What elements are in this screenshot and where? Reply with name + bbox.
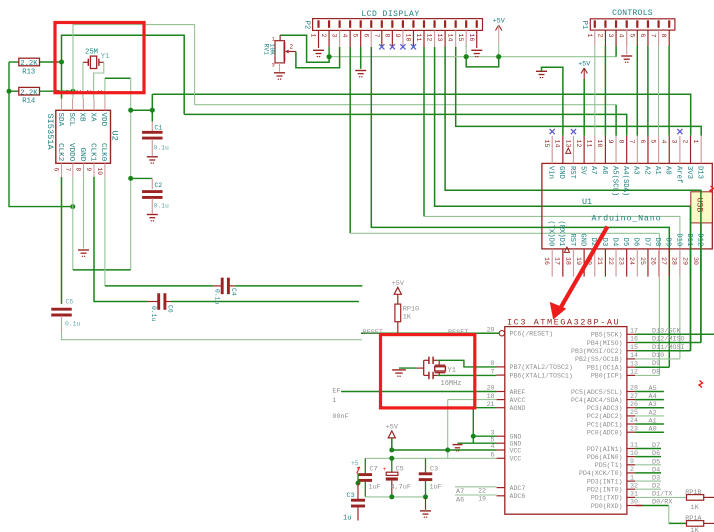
header P2 pin line 13 <box>444 30 446 47</box>
svg-text:PC1(ADC1): PC1(ADC1) <box>587 421 623 428</box>
no-connect X LCD pins 7-10 <box>379 44 384 49</box>
svg-text:C7: C7 <box>370 466 378 474</box>
svg-text:5V: 5V <box>579 166 587 175</box>
IC3 right pin 32 PD2(INT0) <box>627 488 635 490</box>
wire LCD pin15 to +5V <box>465 44 467 57</box>
U1 bottom pin 19 GND <box>583 249 585 277</box>
IC3 left pin 21 AGND <box>497 407 505 409</box>
wire SDA rail <box>184 114 627 135</box>
IC3 right pin 14 PB2(SS/OC1B) <box>627 358 635 360</box>
svg-text:XA: XA <box>88 113 96 123</box>
svg-text:D11: D11 <box>685 233 693 246</box>
trimmer RV1 10K <box>279 35 281 41</box>
header P2 pin tick 3 <box>339 20 341 28</box>
IC3 right pin 11 PD7(AIN1) <box>627 448 635 450</box>
header P2 pin line 1 <box>318 30 320 48</box>
IC3 right pin 25 PC2(ADC2) <box>627 415 635 417</box>
svg-text:PD6(AIN0): PD6(AIN0) <box>587 454 623 461</box>
IC3 right pin 26 PC3(ADC3) <box>627 407 635 409</box>
svg-text:12: 12 <box>575 140 582 148</box>
U1 bottom pin 22 D4 <box>615 249 617 277</box>
svg-text:13: 13 <box>436 34 443 42</box>
svg-text:XB: XB <box>78 113 86 123</box>
svg-text:5: 5 <box>352 34 359 38</box>
svg-text:PC0(ADC0): PC0(ADC0) <box>587 430 623 437</box>
U2 top pin XA <box>93 99 95 111</box>
svg-text:GND: GND <box>579 233 587 246</box>
junction LCD pin2 <box>328 47 330 57</box>
svg-text:23: 23 <box>617 257 624 265</box>
U1 top pin 10 A2 <box>647 136 649 164</box>
IC3 right pin 31 PD1(TXD) <box>627 496 635 498</box>
wire across to C1 <box>131 109 153 111</box>
svg-text:3: 3 <box>491 429 495 436</box>
svg-text:P1: P1 <box>580 21 588 29</box>
svg-text:D4: D4 <box>652 466 660 474</box>
IC U1 Arduino Nano box <box>542 163 712 249</box>
wire VDDO down <box>72 177 74 270</box>
svg-text:GND: GND <box>78 148 86 162</box>
U1 top pin 8 A4(SDA) <box>626 136 628 164</box>
junction C1 top <box>150 108 155 113</box>
svg-text:C4: C4 <box>230 288 237 296</box>
U1 top pin 3 RST <box>572 136 574 164</box>
svg-text:1K: 1K <box>691 504 700 512</box>
svg-text:4: 4 <box>491 443 495 450</box>
svg-text:19: 19 <box>478 496 486 503</box>
wire D10 <box>635 358 680 360</box>
svg-text:D2: D2 <box>652 483 660 491</box>
U2 bottom pin VDDO <box>72 163 74 177</box>
wire D13/SCK <box>635 333 714 335</box>
svg-text:A6: A6 <box>456 496 464 504</box>
svg-text:VCC: VCC <box>510 447 522 454</box>
svg-text:D8: D8 <box>653 238 661 247</box>
header P2 pin tick 8 <box>391 20 393 28</box>
svg-text:LCD DISPLAY: LCD DISPLAY <box>361 10 419 19</box>
svg-text:1u: 1u <box>343 515 351 523</box>
svg-text:8: 8 <box>491 360 495 367</box>
svg-text:PB0(ICP): PB0(ICP) <box>591 373 623 380</box>
IC3 left pin 18 AVCC <box>497 399 505 401</box>
svg-text:RP10: RP10 <box>403 305 419 313</box>
svg-text:C2: C2 <box>155 182 163 189</box>
svg-text:1: 1 <box>692 140 699 144</box>
svg-text:D5: D5 <box>652 458 660 466</box>
svg-text:24: 24 <box>630 417 638 424</box>
wire CLK0 to C4 <box>104 177 106 286</box>
svg-text:32: 32 <box>630 482 638 489</box>
U1 bottom pin 25 D7 <box>647 249 649 277</box>
U1 bottom pin 16 (TX)D0 <box>551 249 553 277</box>
header P2 pin line 16 <box>476 30 478 48</box>
svg-text:VCC: VCC <box>510 456 522 463</box>
U1 bottom pin 26 D8 <box>658 249 660 277</box>
svg-text:RP1A: RP1A <box>685 515 702 523</box>
svg-text:RST: RST <box>568 233 576 247</box>
IC3 left pin 7 PB6(XTAL1/TOSC1) <box>497 374 505 376</box>
svg-text:11: 11 <box>586 140 593 148</box>
wire XTAL1 to PB6 <box>437 374 496 376</box>
wire CLK2 down to C5 <box>61 177 63 304</box>
svg-text:24: 24 <box>628 257 635 265</box>
wire GND pin5 <box>458 442 497 444</box>
red highlight box around 16MHz crystal <box>381 335 475 408</box>
svg-text:A7: A7 <box>589 166 597 175</box>
svg-text:3V3: 3V3 <box>685 166 693 179</box>
svg-text:SDA: SDA <box>56 113 64 127</box>
svg-text:D0/RX: D0/RX <box>652 499 672 507</box>
svg-text:A4(SDA): A4(SDA) <box>621 166 629 196</box>
svg-text:AGND: AGND <box>510 405 526 412</box>
IC3 left pin 29 PC6(/RESET) <box>499 331 504 336</box>
+5V rail pale <box>329 56 616 58</box>
U1 top pin 6 A6 <box>604 136 606 164</box>
svg-text:A6: A6 <box>600 166 608 175</box>
svg-text:Y1: Y1 <box>101 53 110 61</box>
IC3 right pin 28 PC5(ADC5/SCL) <box>627 391 635 393</box>
svg-text:C1: C1 <box>155 125 163 132</box>
U1 bottom pin 21 D3 <box>604 249 606 277</box>
svg-text:6: 6 <box>491 452 495 459</box>
svg-text:D13: D13 <box>696 166 704 179</box>
U1 top pin 14 3V3 <box>690 136 692 164</box>
header P1 pin 4 <box>626 20 628 28</box>
header P1 pin 8 <box>668 20 670 28</box>
svg-text:+5V: +5V <box>578 61 591 69</box>
svg-text:Arduino_Nano: Arduino_Nano <box>592 214 662 224</box>
IC3 left pin 4 VCC <box>497 449 505 451</box>
svg-text:R14: R14 <box>22 98 35 106</box>
svg-text:R13: R13 <box>22 69 35 77</box>
svg-text:10: 10 <box>596 140 603 148</box>
svg-text:GND: GND <box>510 434 522 441</box>
wire D7 stub <box>635 448 661 450</box>
header P2 pin line 5 <box>360 30 362 47</box>
svg-text:31: 31 <box>630 491 638 498</box>
wire SDA from U2 up and right <box>62 35 185 114</box>
svg-text:7: 7 <box>628 140 635 144</box>
wire CONTROLS pin1 to A7 <box>594 46 596 136</box>
svg-text:D8: D8 <box>652 368 660 376</box>
IC3 right pin 17 PB5(SCK) <box>627 333 635 335</box>
IC IC3 ATMEGA328P-AU box <box>505 327 627 515</box>
wire RESET net <box>361 332 499 334</box>
IC U2 SI5351A box <box>56 110 111 163</box>
header P2 pin tick 6 <box>370 20 372 28</box>
wire CLK1 output <box>171 301 359 303</box>
wire LCD pin12 DB5 to D11 <box>435 47 691 351</box>
wire A0 stub <box>635 431 664 433</box>
svg-text:10: 10 <box>96 168 103 176</box>
svg-text:D10: D10 <box>652 352 664 360</box>
svg-text:26: 26 <box>630 401 638 408</box>
wire VDD pin to 3V3 rail <box>104 78 106 98</box>
ground U2 pin8 <box>78 249 89 251</box>
IC3 right pin 24 PC1(ADC1) <box>627 423 635 425</box>
svg-text:D7: D7 <box>642 238 650 247</box>
wire LCD pin13 DB6 to D12 <box>445 47 701 343</box>
svg-text:27: 27 <box>630 393 638 400</box>
U1 top pin 11 A1 <box>658 136 660 164</box>
svg-text:7: 7 <box>373 34 380 38</box>
svg-text:0.1u: 0.1u <box>213 289 220 305</box>
svg-text:PD7(AIN1): PD7(AIN1) <box>587 446 623 453</box>
svg-text:VDD: VDD <box>99 113 107 127</box>
svg-text:15: 15 <box>630 344 638 351</box>
U1 top pin 1 Vin <box>551 136 553 164</box>
ground LCD pin16 <box>471 49 482 51</box>
wire D0/RX to resistor RP1A 1K <box>635 505 642 507</box>
svg-text:13: 13 <box>630 360 638 367</box>
svg-text:18: 18 <box>564 257 571 265</box>
capacitor C1 0.1u <box>151 122 153 132</box>
svg-text:30: 30 <box>692 257 699 265</box>
wire CONTROLS pin3 to +5V rail <box>615 46 617 57</box>
svg-text:Aref: Aref <box>674 166 682 183</box>
svg-text:D12/MISO: D12/MISO <box>652 336 685 344</box>
svg-text:11: 11 <box>415 34 422 42</box>
svg-text:9: 9 <box>85 168 92 172</box>
svg-text:30: 30 <box>630 499 638 506</box>
svg-text:13: 13 <box>564 140 571 148</box>
U1 top pin 9 A3 <box>636 136 638 164</box>
svg-text:C3: C3 <box>347 492 355 500</box>
U1 bottom pin 23 D5 <box>626 249 628 277</box>
svg-text:C6: C6 <box>167 305 174 313</box>
wire XA to crystal <box>94 62 104 98</box>
svg-text:ADC6: ADC6 <box>510 493 526 500</box>
svg-text:Y1: Y1 <box>448 367 456 375</box>
svg-text:CLK1: CLK1 <box>88 143 96 162</box>
svg-text:C5: C5 <box>66 299 74 306</box>
svg-text:D6: D6 <box>652 450 660 458</box>
+5V symbol Arduino 5V <box>581 68 584 74</box>
resistor RP10 1K <box>397 294 399 304</box>
svg-text:14: 14 <box>630 352 638 359</box>
capacitor C3 1uF <box>425 458 427 473</box>
svg-text:29: 29 <box>487 326 495 333</box>
IC3 left pin 22 ADC7 <box>497 487 505 489</box>
svg-text:D13/SCK: D13/SCK <box>652 327 681 335</box>
svg-text:1: 1 <box>586 34 593 38</box>
svg-text:10K: 10K <box>268 44 275 56</box>
U1 bottom pin 27 D9 <box>668 249 670 277</box>
svg-text:PB7(XTAL2/TOSC2): PB7(XTAL2/TOSC2) <box>510 364 573 371</box>
wire ADC6 <box>455 494 497 496</box>
svg-text:2: 2 <box>320 34 327 38</box>
svg-text:4,7uF: 4,7uF <box>391 484 411 492</box>
svg-text:ADC7: ADC7 <box>510 485 526 492</box>
svg-text:PD4(XCK/T0): PD4(XCK/T0) <box>579 470 623 477</box>
svg-text:19: 19 <box>575 257 582 265</box>
svg-text:10: 10 <box>404 34 411 42</box>
svg-text:+5V: +5V <box>386 423 399 431</box>
svg-text:17: 17 <box>554 257 561 265</box>
svg-text:C3: C3 <box>430 466 438 474</box>
svg-text:A5(SCL): A5(SCL) <box>610 166 618 196</box>
wire VDD rail down to C2 and VDDO <box>130 110 132 270</box>
svg-text:U1: U1 <box>582 197 592 207</box>
U1 top pin 13 Aref <box>679 136 681 164</box>
svg-text:2: 2 <box>290 44 294 51</box>
svg-text:10: 10 <box>630 450 638 457</box>
wire CLK0 output <box>235 285 362 287</box>
header P1 box <box>590 19 675 30</box>
svg-text:A3: A3 <box>632 166 640 175</box>
svg-text:PD3(INT1): PD3(INT1) <box>587 478 623 485</box>
U2 top pin SDA <box>61 99 63 111</box>
capacitor C5 0.1u <box>51 308 72 311</box>
svg-text:23: 23 <box>630 425 638 432</box>
svg-text:AVCC: AVCC <box>510 397 526 404</box>
svg-text:2.2K: 2.2K <box>20 89 38 97</box>
U1 bottom pin 17 (RX)D1 <box>562 249 564 277</box>
ground CONTROLS pin4 <box>626 30 628 54</box>
svg-text:6: 6 <box>362 34 369 38</box>
header P2 pin tick 13 <box>444 20 446 28</box>
junction R14/SCL <box>71 89 76 94</box>
header P1 pin 1 <box>594 20 596 28</box>
svg-text:PB2(SS/OC1B): PB2(SS/OC1B) <box>575 356 622 363</box>
svg-text:PC2(ADC2): PC2(ADC2) <box>587 413 623 420</box>
wire to C2 <box>131 177 153 179</box>
svg-text:CONTROLS: CONTROLS <box>612 9 653 18</box>
svg-text:PB5(SCK): PB5(SCK) <box>591 332 623 339</box>
svg-text:15: 15 <box>543 140 550 148</box>
svg-text:A2: A2 <box>649 409 657 417</box>
svg-text:20: 20 <box>487 385 495 392</box>
svg-text:GND: GND <box>557 166 565 179</box>
svg-text:CLK0: CLK0 <box>99 143 107 162</box>
wire LCD pin11 DB4 to D10 <box>423 47 425 216</box>
svg-text:9: 9 <box>630 458 634 465</box>
IC3 left pin 6 VCC <box>497 457 505 459</box>
svg-text:PB6(XTAL1/TOSC1): PB6(XTAL1/TOSC1) <box>510 372 573 379</box>
svg-text:2.2K: 2.2K <box>20 60 38 68</box>
svg-text:A1: A1 <box>653 166 661 175</box>
capacitor C2 0.1u <box>151 178 153 189</box>
svg-text:USB: USB <box>694 198 703 213</box>
header P2 pin line 10 <box>412 30 414 47</box>
wire CONTROLS pin7 to A1 <box>658 46 660 136</box>
header P2 pin tick 10 <box>412 20 414 28</box>
svg-text:P2: P2 <box>303 21 311 29</box>
wire SCL drop to Arduino A5 <box>615 105 617 136</box>
svg-text:U2: U2 <box>110 131 120 141</box>
ground cap cluster <box>425 497 427 510</box>
svg-text:PC3(ADC3): PC3(ADC3) <box>587 405 623 412</box>
IC3 right pin 23 PC0(ADC0) <box>627 431 635 433</box>
IC3 right pin 13 PB1(OC1A) <box>627 366 635 368</box>
svg-text:28: 28 <box>630 385 638 392</box>
wire D9 <box>635 366 669 368</box>
U2 bottom pin CLK1 <box>93 163 95 177</box>
header P2 pin line 2 <box>328 30 330 47</box>
IC3 left pin 5 GND <box>497 442 505 444</box>
header P2 pin line 4 <box>349 30 351 47</box>
svg-text:25: 25 <box>639 257 646 265</box>
svg-text:16: 16 <box>630 336 638 343</box>
U1 bottom pin 29 D11 <box>690 249 692 277</box>
svg-text:RP1B: RP1B <box>685 489 701 497</box>
svg-text:25M: 25M <box>85 49 98 57</box>
svg-text:16: 16 <box>468 34 475 42</box>
svg-text:2: 2 <box>596 34 603 38</box>
wire CONTROLS pin6 to A2 <box>647 46 649 136</box>
capacitor C7 1uF <box>364 458 366 473</box>
svg-text:+5V: +5V <box>493 18 506 26</box>
crystal Y1 25M <box>83 61 88 63</box>
wire CLK2 output rail <box>62 332 362 339</box>
IC3 right pin 27 PC4(ADC4/SDA) <box>627 399 635 401</box>
svg-text:A0: A0 <box>664 166 672 175</box>
header P2 pin line 12 <box>434 30 436 47</box>
+5V symbol above RP10 <box>394 287 401 294</box>
svg-text:A0: A0 <box>649 426 657 434</box>
svg-text:12: 12 <box>426 34 433 42</box>
svg-text:PB1(OC1A): PB1(OC1A) <box>587 365 623 372</box>
svg-text:8: 8 <box>383 34 390 38</box>
wire SCL rail <box>195 104 616 106</box>
U2 top pin VDD <box>104 99 106 111</box>
wire CONTROLS pin5 to A3 <box>636 46 638 136</box>
svg-text:PC5(ADC5/SCL): PC5(ADC5/SCL) <box>571 389 622 396</box>
svg-text:VDDO: VDDO <box>67 143 75 162</box>
U1 bottom pin 20 D2 <box>594 249 596 277</box>
svg-text:5: 5 <box>649 140 656 144</box>
svg-text:(RX)D1: (RX)D1 <box>557 220 565 246</box>
svg-text:0.1u: 0.1u <box>154 145 170 152</box>
svg-text:+5V: +5V <box>392 280 405 288</box>
red annotation arrow <box>559 227 608 311</box>
svg-text:0.1u: 0.1u <box>65 321 81 328</box>
ground under C2 <box>147 214 158 216</box>
svg-text:3: 3 <box>331 34 338 38</box>
wire D5 stub <box>635 464 661 466</box>
junction VDD rail <box>128 108 133 113</box>
svg-text:9: 9 <box>607 140 614 144</box>
IC3 right pin 30 PD0(RXD) <box>627 505 635 507</box>
wire AGND <box>473 407 496 409</box>
U1 bottom pin 28 D10 <box>679 249 681 277</box>
U1 top pin 12 A0 <box>668 136 670 164</box>
wire D2 stub <box>635 488 661 490</box>
svg-text:D3: D3 <box>652 475 660 483</box>
header P1 pin 3 <box>615 20 617 28</box>
svg-text:27: 27 <box>660 257 667 265</box>
wire C1 to 3V3 rail <box>151 94 153 121</box>
ground LCD pin1 <box>313 49 324 51</box>
+5V symbol VCC <box>388 431 395 438</box>
IC3 right pin 1 PD3(INT1) <box>627 480 635 482</box>
svg-text:6: 6 <box>639 34 646 38</box>
resistor R13 2.2K <box>9 61 19 63</box>
wire VCC pin4 <box>392 449 497 451</box>
svg-text:PD0(RXD): PD0(RXD) <box>591 503 623 510</box>
wire A2 stub <box>635 415 664 417</box>
wire D11 over box edge <box>690 206 692 350</box>
wire 3V3 rail from VDD area to Arduino 3V3 <box>152 94 690 136</box>
svg-text:C5: C5 <box>396 466 404 474</box>
header P2 pin line 15 <box>465 30 467 47</box>
svg-text:D9: D9 <box>664 238 672 247</box>
svg-text:1K: 1K <box>691 527 700 532</box>
svg-text:25: 25 <box>630 409 638 416</box>
svg-text:PD2(INT0): PD2(INT0) <box>587 487 623 494</box>
ground IC3 GND <box>453 444 463 446</box>
svg-text:D6: D6 <box>632 238 640 247</box>
